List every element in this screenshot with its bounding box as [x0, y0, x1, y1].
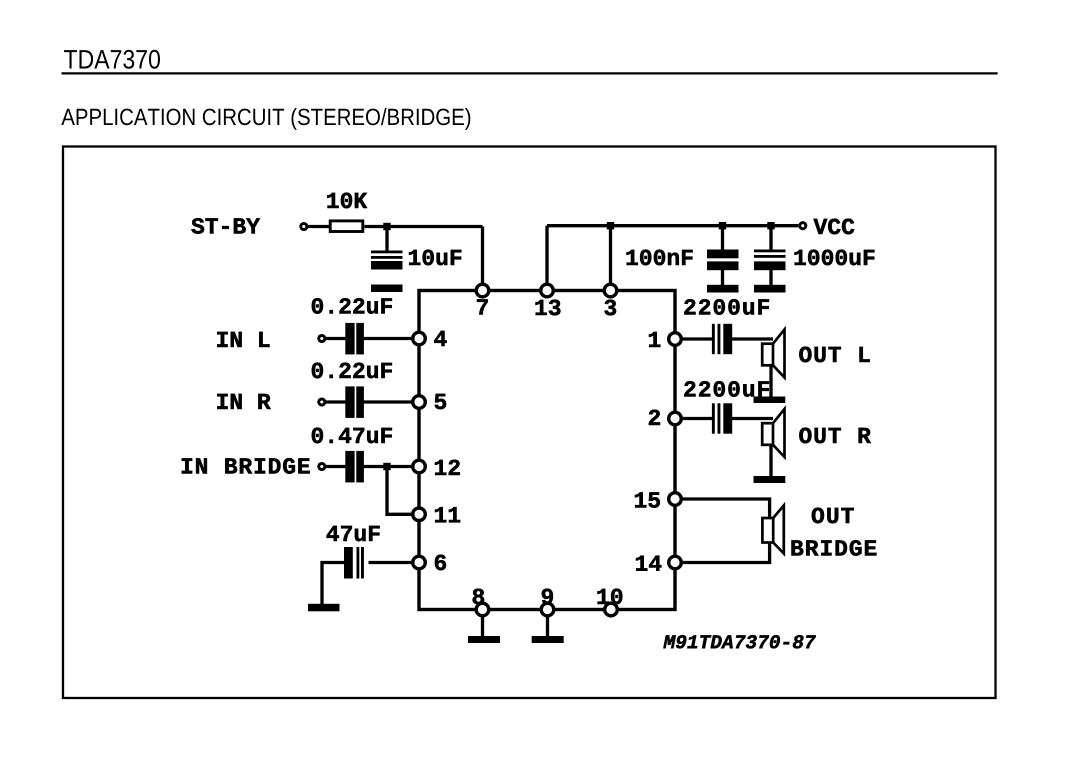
label value 10uF — [409, 250, 461, 266]
label value 0.22uF (IN R) — [312, 363, 392, 379]
pin 12 — [413, 460, 426, 473]
label value 47uF — [327, 526, 380, 541]
label part number M91TDA7370-87 — [663, 635, 815, 648]
capacitor C4 0.22uF (IN L) — [345, 323, 364, 355]
label title TDA7370 — [64, 50, 160, 69]
wire branch down to pin 11 — [387, 468, 415, 514]
junction pin3/VCC rail — [607, 222, 614, 229]
label pin 3 number — [605, 300, 617, 316]
label pin 14 number — [636, 556, 661, 571]
speaker OUT L — [762, 329, 784, 377]
label pin 7 number — [477, 299, 488, 314]
wire 100nF bottom lead — [721, 269, 724, 286]
wire C8 to speaker L — [732, 337, 773, 340]
label net IN R — [217, 394, 270, 409]
speaker OUT BRIDGE — [762, 505, 783, 553]
wire speaker R ground lead — [769, 446, 772, 478]
terminal ST-BY — [301, 223, 307, 229]
pin 15 — [669, 493, 682, 506]
label value 2200uF (OUT L) — [684, 299, 769, 315]
label pin 9 number — [542, 589, 553, 605]
label value 10K — [327, 193, 367, 209]
speaker OUT R — [762, 409, 784, 457]
wire bridge speaker bottom to pin14 — [681, 542, 770, 563]
junction IN BRIDGE branch — [383, 463, 390, 470]
ground below C7 — [308, 604, 340, 612]
terminal IN R — [319, 399, 325, 405]
pin 4 — [413, 332, 426, 345]
wire pin8 ground lead — [481, 616, 484, 637]
capacitor C5 0.22uF (IN R) — [345, 386, 364, 418]
pin 13 — [541, 284, 554, 297]
wire pin15 to bridge speaker top — [681, 499, 770, 519]
capacitor C1 10uF electrolytic — [371, 251, 403, 270]
label pin 10 number — [598, 589, 623, 605]
label pin 13 number — [536, 300, 561, 316]
ground below pin 9 — [532, 636, 564, 643]
pin 7 — [476, 284, 489, 297]
terminal IN BRIDGE — [319, 463, 325, 469]
wire riser down to pin 7 — [481, 227, 484, 289]
wire pin13 riser up — [545, 226, 548, 288]
label heading APPLICATION CIRCUIT (STEREO/BRIDGE) — [61, 108, 470, 130]
junction ST-BY/10uF — [383, 223, 390, 230]
label net OUT (bridge) — [812, 508, 854, 524]
capacitor C8 2200uF (OUT L) — [712, 324, 732, 354]
pin 6 — [413, 556, 426, 569]
wire speaker L ground lead — [769, 366, 772, 397]
pin 8 — [476, 603, 489, 616]
wire 1000uF bottom lead — [769, 269, 772, 286]
ground below pin 8 — [468, 636, 500, 643]
wire 1000uF top lead — [769, 226, 772, 251]
ground below C2 — [707, 285, 739, 293]
wire 100nF top lead — [721, 226, 724, 251]
label value 2200uF (OUT R) — [684, 381, 769, 397]
pin 1 — [669, 333, 682, 346]
wire C6 to pin 12 — [364, 465, 416, 468]
label net BRIDGE — [792, 540, 877, 556]
pin 10 — [605, 603, 618, 616]
pin 5 — [413, 396, 426, 409]
pin 3 — [604, 284, 617, 297]
label pin 5 number — [435, 394, 446, 409]
terminal IN L — [319, 335, 325, 341]
pin 2 — [669, 412, 682, 425]
capacitor C3 1000uF electrolytic — [754, 250, 786, 271]
label net IN L — [217, 332, 269, 347]
wire 10uF top lead — [385, 228, 388, 252]
wire IN BRIDGE terminal to C6 — [325, 465, 346, 468]
label value 0.22uF (IN L) — [312, 298, 392, 314]
wire pin9 ground lead — [546, 616, 549, 637]
capacitor C7 47uF electrolytic — [344, 547, 364, 579]
wire pin3 riser up — [609, 226, 612, 288]
label pin 12 number — [435, 460, 460, 475]
label net OUT L — [799, 347, 869, 363]
wire C4 to pin 4 — [364, 337, 416, 340]
label value 0.47uF — [312, 428, 392, 444]
wire C9 to speaker R — [732, 417, 773, 420]
label value 1000uF — [795, 250, 875, 266]
label pin 6 number — [435, 555, 446, 571]
wire C7 left lead to ground — [322, 563, 344, 606]
label pin 2 number — [649, 410, 660, 425]
wire IN R terminal to C5 — [325, 400, 346, 403]
terminal VCC — [800, 223, 806, 229]
ground below speaker L — [754, 397, 786, 404]
title underline rule — [62, 72, 998, 74]
capacitor C9 2200uF (OUT R) — [712, 403, 732, 433]
IC U1 TDA7370 body — [419, 291, 675, 610]
ground below speaker R — [754, 476, 786, 483]
pin 9 — [541, 603, 554, 616]
ground below C3 — [754, 285, 786, 293]
label value 100nF — [627, 250, 693, 266]
label pin 11 number — [435, 507, 460, 522]
wire VCC rail — [547, 224, 798, 227]
junction 1000uF — [767, 222, 774, 229]
wire C7 to pin 6 — [369, 561, 416, 564]
wire ST-BY terminal to resistor — [306, 225, 329, 228]
label net ST-BY — [191, 218, 260, 234]
junction 100nF — [719, 222, 726, 229]
label net VCC — [814, 219, 855, 235]
capacitor C2 100nF — [707, 250, 739, 271]
wire pin1 to C8 — [681, 337, 713, 340]
pin 14 — [669, 556, 682, 569]
resistor R1 10K — [330, 221, 363, 232]
label pin 1 number — [649, 332, 660, 347]
label pin 15 number — [635, 492, 660, 507]
label pin 4 number — [434, 331, 446, 346]
label net OUT R — [799, 428, 871, 444]
label net IN BRIDGE — [182, 458, 310, 474]
pin 11 — [413, 508, 426, 521]
label pin 8 number — [473, 589, 484, 605]
wire resistor to pin7 riser — [365, 225, 483, 228]
capacitor C6 0.47uF (IN BRIDGE) — [345, 451, 364, 483]
wire C5 to pin 5 — [364, 400, 416, 403]
ground below C1 — [371, 285, 403, 293]
schematic frame — [63, 147, 996, 699]
wire IN L terminal to C4 — [325, 337, 346, 340]
wire pin2 to C9 — [681, 417, 713, 420]
